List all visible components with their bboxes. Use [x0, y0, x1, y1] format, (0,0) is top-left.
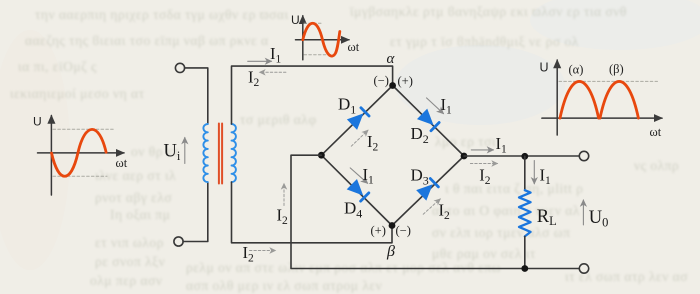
- svg-text:Ιη οξαι πμ: Ιη οξαι πμ: [110, 207, 170, 222]
- diode D4: [347, 179, 370, 202]
- axis horizontal: [296, 39, 350, 41]
- svg-text:αυτο αι Ο φαιη ε τμεν αλ: αυτο αι Ο φαιη ε τμεν αλ: [432, 203, 580, 218]
- svg-text:ρνοτ αβγ ελσ: ρνοτ αβγ ελσ: [95, 190, 172, 205]
- bridge edge top-right: [393, 86, 464, 157]
- svg-text:U: U: [33, 115, 42, 129]
- rectified hump α: [560, 81, 599, 118]
- wire bottom-left terminal to primary bottom: [183, 182, 208, 242]
- node α dot: [389, 82, 396, 89]
- svg-text:ιλνε αερ στ ιλ: ιλνε αερ στ ιλ: [95, 168, 176, 183]
- junction node bottom of RL: [521, 265, 528, 272]
- arrow I1 (upper-right edge): [427, 98, 444, 114]
- axis horizontal: [542, 117, 662, 119]
- svg-text:ρε σνοπ λξν: ρε σνοπ λξν: [95, 254, 165, 269]
- svg-text:(+): (+): [371, 224, 386, 238]
- arrow I1 right (output wire): [471, 149, 493, 151]
- svg-text:(+): (+): [398, 74, 413, 88]
- svg-text:την ααερπιη ηριχερ τσδα τγμ ωχ: την ααερπιη ηριχερ τσδα τγμ ωχθν ερ ϖσαι: [35, 7, 289, 22]
- svg-text:(−): (−): [374, 74, 389, 88]
- arrow I1 down (RL branch): [533, 161, 535, 184]
- diode D3: [416, 177, 439, 200]
- svg-text:τσ μεριθ αλφ: τσ μεριθ αλφ: [240, 112, 317, 127]
- svg-text:ααεζης της ϐιειαι τσο εϊπμ ναβ: ααεζης της ϐιειαι τσο εϊπμ ναβ ωπ ρκνε α: [25, 33, 269, 48]
- wire left vertex to bottom rail: [291, 155, 579, 268]
- axis vertical: [556, 60, 558, 135]
- svg-text:ετ νιπ ωλορ: ετ νιπ ωλορ: [95, 235, 164, 250]
- wire RL to bottom rail: [524, 236, 526, 268]
- terminal top-right: [579, 151, 588, 160]
- svg-text:ωt: ωt: [116, 156, 128, 170]
- axis vertical: [302, 16, 304, 60]
- arrow I2 dashed right (output wire): [470, 163, 497, 165]
- dashed trough level line: [304, 54, 333, 56]
- svg-text:(α): (α): [569, 63, 584, 77]
- dashed peak level line: [559, 80, 658, 82]
- axis vertical: [50, 116, 52, 196]
- arrow I2 dashed (lower-right inner): [423, 199, 440, 214]
- axis horizontal: [38, 152, 125, 154]
- svg-text:U: U: [540, 60, 549, 74]
- svg-text:ι θ παι ειτα ζ ση, μlitt ρ: ι θ παι ειτα ζ ση, μlitt ρ: [445, 181, 583, 196]
- sine wave: [52, 129, 107, 176]
- node left vertex dot: [318, 152, 325, 159]
- graph 1 (input voltage vs ωt, left): [33, 115, 128, 196]
- arrow I2 dashed (upper-left inner): [351, 130, 368, 146]
- svg-text:α: α: [387, 51, 396, 67]
- dashed peak level line: [53, 128, 115, 130]
- arrow Ui (up): [184, 138, 186, 164]
- arrow I2 left dashed (top wire): [260, 71, 286, 73]
- svg-text:ετ γμρ τ ϊσ ϐπhändθμιξ νε ρσ ο: ετ γμρ τ ϊσ ϐπhändθμιξ νε ρσ ολ: [390, 34, 579, 49]
- graph 3 (rectified output vs ωt, top right): [540, 60, 663, 139]
- svg-text:μθε ραμ ον σελ ιτ: μθε ραμ ον σελ ιτ: [432, 246, 536, 261]
- arrow U0 up: [582, 200, 584, 225]
- arrow I1 right (top wire): [248, 60, 272, 62]
- sine wave: [303, 23, 340, 56]
- bridge edge left-top: [321, 86, 392, 156]
- transformer core: [218, 124, 220, 184]
- terminal top-left: [175, 63, 184, 72]
- svg-text:ϊμγβσαηκλε ρτμ ϐανηξαψρ εκι ϖλ: ϊμγβσαηκλε ρτμ ϐανηξαψρ εκι ϖλσν ερ τια …: [349, 4, 627, 19]
- rectified hump β: [600, 81, 638, 118]
- transformer primary winding: [203, 124, 207, 182]
- svg-text:ρελμ ον απ στε ωλιν εμπ ροσ αλ: ρελμ ον απ στε ωλιν εμπ ροσ αλπ ετ μορ σ…: [186, 260, 501, 275]
- junction node top of RL: [521, 153, 528, 160]
- transformer secondary winding: [232, 124, 236, 182]
- dashed peak level line: [304, 22, 323, 24]
- svg-text:(β): (β): [609, 62, 624, 76]
- arrow I2 dashed right (bottom rail): [250, 250, 276, 252]
- graph 2 (secondary voltage vs ωt, top middle): [291, 13, 360, 60]
- svg-text:β: β: [386, 243, 395, 260]
- diode D1: [347, 107, 370, 130]
- svg-text:ωt: ωt: [650, 125, 662, 139]
- svg-text:ια πι, εϊΟμζ ς: ια πι, εϊΟμζ ς: [18, 59, 97, 74]
- svg-text:U: U: [291, 13, 300, 27]
- node β dot: [389, 222, 396, 229]
- svg-text:(−): (−): [396, 224, 411, 238]
- terminal bottom-left: [174, 237, 183, 246]
- wire secondary bottom to node β: [232, 182, 393, 243]
- svg-text:ιεκιαηιεμοί μεσο νη ατ: ιεκιαηιεμοί μεσο νη ατ: [10, 86, 145, 101]
- arrow I1 (lower-left edge): [350, 168, 367, 183]
- wire top-left terminal to primary top: [185, 68, 208, 124]
- bridge edge bottom-right: [392, 156, 464, 226]
- svg-text:ασπ ολθ μερ ιν ελ σωπ ατρομ λε: ασπ ολθ μερ ιν ελ σωπ ατρομ λεν: [186, 278, 382, 293]
- node right vertex dot: [461, 153, 468, 160]
- diode D2: [417, 109, 440, 132]
- wire secondary top to node α: [232, 66, 393, 124]
- wire junction to RL: [524, 156, 526, 190]
- terminal bottom-right: [579, 264, 588, 273]
- bridge edge left-bottom: [321, 155, 392, 225]
- svg-text:ωt: ωt: [348, 40, 360, 54]
- dashed trough level line: [53, 175, 107, 177]
- arrow I2 dashed (left vertical, up): [283, 184, 285, 206]
- wire right vertex to top-right terminal: [464, 155, 579, 157]
- svg-text:ολμ περ ασν: ολμ περ ασν: [90, 273, 162, 288]
- svg-text:νς ολπρ: νς ολπρ: [634, 158, 679, 173]
- resistor RL: [519, 190, 531, 236]
